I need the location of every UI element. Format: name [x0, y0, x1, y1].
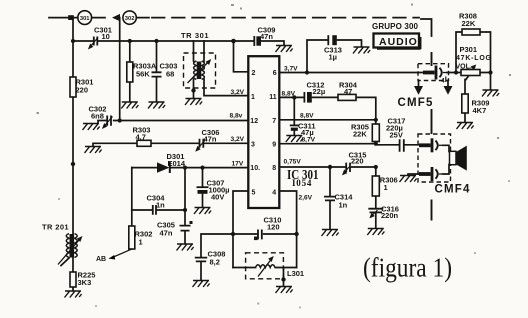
svg-text:11: 11 [269, 94, 277, 101]
svg-text:22K: 22K [353, 129, 367, 138]
svg-text:56K: 56K [136, 70, 150, 79]
svg-text:(figura 1): (figura 1) [363, 253, 452, 283]
svg-text:47n: 47n [204, 135, 217, 144]
svg-text:47n: 47n [160, 229, 173, 238]
svg-text:4: 4 [272, 189, 276, 196]
svg-text:25V: 25V [390, 131, 403, 140]
svg-text:68: 68 [166, 70, 174, 79]
svg-text:47: 47 [344, 87, 352, 96]
svg-text:6: 6 [273, 70, 277, 77]
svg-text:R302: R302 [135, 230, 153, 239]
svg-text:CMF4: CMF4 [435, 184, 471, 196]
svg-text:TR 301: TR 301 [181, 31, 209, 40]
svg-text:AUDIO: AUDIO [379, 36, 418, 48]
svg-text:2,6V: 2,6V [299, 195, 313, 202]
svg-text:5: 5 [252, 189, 256, 196]
svg-text:GRUPO 300: GRUPO 300 [372, 22, 419, 31]
svg-text:47µ: 47µ [301, 128, 314, 137]
svg-text:3: 3 [251, 142, 255, 149]
svg-text:1n: 1n [156, 201, 165, 210]
svg-text:8,2: 8,2 [210, 258, 220, 267]
svg-text:4K7: 4K7 [473, 106, 487, 115]
svg-text:220: 220 [351, 157, 364, 166]
svg-text:3,2V: 3,2V [231, 136, 245, 143]
svg-text:10: 10 [102, 32, 110, 41]
svg-text:E014: E014 [168, 159, 186, 168]
svg-text:4: 4 [441, 78, 445, 85]
svg-text:10.: 10. [250, 165, 260, 172]
svg-text:9: 9 [272, 142, 276, 149]
svg-text:3,7V: 3,7V [284, 66, 298, 73]
svg-text:1n: 1n [339, 201, 348, 210]
svg-text:120: 120 [267, 223, 280, 232]
svg-text:7: 7 [272, 118, 276, 125]
svg-text:40V: 40V [211, 193, 224, 202]
svg-text:8: 8 [272, 165, 276, 172]
svg-text:1µ: 1µ [329, 53, 338, 62]
svg-text:220: 220 [76, 86, 89, 95]
svg-text:CMF5: CMF5 [398, 97, 434, 109]
svg-text:302: 302 [125, 16, 135, 22]
svg-text:22K: 22K [462, 19, 476, 28]
svg-text:4,7: 4,7 [136, 133, 146, 142]
svg-text:0,75V: 0,75V [284, 159, 302, 166]
svg-text:220n: 220n [381, 211, 399, 220]
svg-text:8,7V: 8,7V [302, 137, 316, 144]
svg-text:VOL.: VOL. [456, 64, 472, 71]
svg-text:8,8V: 8,8V [300, 113, 314, 120]
svg-text:2: 2 [252, 70, 256, 77]
svg-text:301: 301 [80, 16, 90, 22]
svg-text:22µ: 22µ [313, 87, 326, 96]
svg-text:1: 1 [251, 94, 255, 101]
svg-text:8,8V: 8,8V [282, 90, 296, 97]
svg-text:47K-LOG: 47K-LOG [456, 55, 492, 62]
svg-text:8,8v: 8,8v [230, 113, 243, 120]
svg-text:1: 1 [139, 238, 143, 247]
svg-text:R306: R306 [380, 176, 398, 185]
svg-text:L301: L301 [287, 269, 304, 278]
svg-text:P301: P301 [460, 45, 478, 54]
svg-text:TR 201: TR 201 [42, 223, 69, 232]
svg-text:6n8: 6n8 [91, 112, 104, 121]
svg-text:1: 1 [384, 183, 388, 192]
svg-text:3K3: 3K3 [78, 278, 92, 287]
svg-text:3,2V: 3,2V [231, 89, 245, 96]
svg-text:AB: AB [96, 256, 106, 263]
svg-text:47n: 47n [260, 32, 273, 41]
svg-text:17V: 17V [232, 161, 244, 168]
svg-text:I054: I054 [292, 178, 312, 188]
svg-text:12: 12 [250, 118, 258, 125]
